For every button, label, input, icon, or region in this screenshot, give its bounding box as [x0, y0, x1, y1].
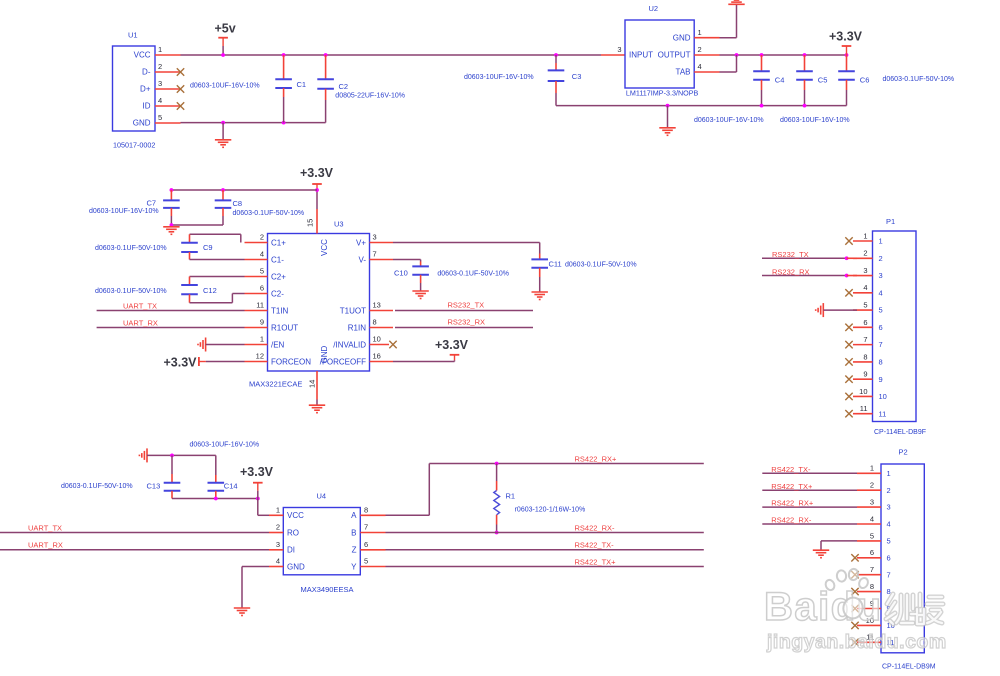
- P1 pin 8 stub: [853, 361, 873, 363]
- U3 pin number 12: [256, 352, 264, 361]
- svg-text:P2: P2: [899, 448, 908, 457]
- net label RS422_RX- (P2): [771, 516, 812, 525]
- svg-text:4: 4: [698, 62, 702, 71]
- U3 part number MAX3221ECAE: [249, 380, 302, 389]
- svg-text:A: A: [351, 511, 357, 520]
- P1 part number CP-114EL-DB9F: [874, 429, 926, 436]
- svg-text:3: 3: [879, 271, 883, 280]
- net label RS422_TX- (P2): [771, 465, 811, 474]
- junction C14 bottom: [214, 497, 218, 501]
- P1 pin 6 stub: [853, 326, 873, 328]
- U4 pin 7 stub: [360, 532, 385, 534]
- U2 pin number 3: [617, 45, 621, 54]
- C3 bottom lead wire: [555, 93, 557, 106]
- refdes C6: [860, 76, 870, 85]
- C10 bottom lead wire: [420, 283, 422, 291]
- svg-text:1: 1: [870, 464, 874, 473]
- capacitor C3: [548, 70, 565, 81]
- wire power stem: [454, 360, 456, 361]
- P1 pin 7 stub: [853, 344, 873, 346]
- svg-text:GND: GND: [133, 119, 151, 128]
- svg-text:TAB: TAB: [676, 68, 691, 77]
- wire C13/C14 bottom rail: [172, 498, 258, 500]
- wire ground drop: [820, 541, 822, 550]
- svg-text:d0603-10UF-16V-10%: d0603-10UF-16V-10%: [190, 83, 260, 90]
- watermark paw print: [824, 568, 869, 620]
- P2 pin 9 stub: [857, 608, 881, 610]
- svg-text:C6: C6: [860, 76, 870, 85]
- C9 bottom lead: [189, 252, 191, 260]
- refdes C13: [147, 482, 161, 491]
- U2 part number LM1117IMP-3.3/NOPB: [626, 88, 699, 97]
- P2 pin name 3: [887, 503, 891, 512]
- U1 pin 2 stub: [155, 71, 181, 73]
- C13 top wire: [171, 455, 173, 474]
- P2 pin number 7: [870, 565, 874, 574]
- U3 pin name C2-: [271, 289, 284, 298]
- svg-text:RS422_RX+: RS422_RX+: [575, 454, 618, 463]
- wire GND pin: [242, 566, 269, 568]
- svg-text:INPUT: INPUT: [629, 51, 653, 60]
- power label +3.3V (FORCEOFF): [435, 338, 469, 352]
- svg-text:6: 6: [364, 540, 368, 549]
- P1 pin number 10: [859, 387, 867, 396]
- net label RS422_TX- (U4): [575, 541, 615, 550]
- svg-text:C1-: C1-: [271, 255, 284, 264]
- U1 pin 3 stub: [155, 88, 181, 90]
- refdes C9: [203, 243, 213, 252]
- no-connect X on P1 pin 8: [845, 358, 852, 365]
- capacitor C11: [531, 259, 548, 267]
- P2 pin name 6: [887, 553, 891, 562]
- svg-text:12: 12: [256, 352, 264, 361]
- P1 pin name 11: [879, 409, 887, 418]
- svg-text:FORCEON: FORCEON: [271, 357, 311, 366]
- wire 3.3V down to U3 VCC: [316, 191, 318, 209]
- svg-text:2: 2: [870, 481, 874, 490]
- net label RS422_RX-: [575, 523, 616, 532]
- svg-text:6: 6: [260, 284, 264, 293]
- svg-text:P1: P1: [886, 217, 895, 226]
- svg-text:U3: U3: [334, 220, 344, 229]
- svg-text:GND: GND: [673, 33, 691, 42]
- P1 pin 1 stub: [853, 240, 873, 242]
- svg-text:DI: DI: [287, 546, 295, 555]
- svg-text:d0603-0.1UF-50V-10%: d0603-0.1UF-50V-10%: [233, 210, 305, 217]
- P2 pin name 2: [887, 486, 891, 495]
- capacitor C2: [317, 79, 334, 89]
- svg-text:C5: C5: [818, 76, 828, 85]
- wire 3.3V output rail: [720, 54, 847, 56]
- C8 top lead: [222, 190, 224, 200]
- svg-text:C8: C8: [233, 199, 243, 208]
- C5 footprint label: [780, 117, 850, 124]
- power bar +3.3V (FORCEOFF): [450, 355, 460, 361]
- wire up to ground: [736, 4, 738, 37]
- svg-text:1: 1: [863, 231, 867, 240]
- wire UART_TX to T1IN: [97, 310, 245, 312]
- svg-text:C2-: C2-: [271, 289, 284, 298]
- junction P1 pin3: [845, 274, 849, 278]
- C1 top lead: [283, 55, 285, 79]
- refdes C10: [394, 268, 408, 277]
- junction TAB tie: [735, 53, 739, 57]
- wire C9 bottom to C1-: [190, 259, 245, 261]
- no-connect X on P1 pin 10: [845, 393, 852, 400]
- no-connect X on P2 pin 9: [851, 605, 858, 612]
- svg-text:C7: C7: [147, 198, 157, 207]
- no-connect X on P1 pin 7: [845, 341, 852, 348]
- svg-text:V+: V+: [356, 238, 366, 247]
- svg-text:10: 10: [859, 387, 867, 396]
- U3 pin number 7: [373, 250, 377, 259]
- svg-text:/INVALID: /INVALID: [333, 340, 366, 349]
- net label UART_RX (U4): [28, 541, 63, 550]
- wire to U4 VCC: [258, 514, 269, 516]
- U3 pin 1 stub: [245, 344, 268, 346]
- U4 pin name Y: [351, 562, 357, 571]
- svg-text:1: 1: [887, 469, 891, 478]
- U3 pin number 8: [373, 318, 377, 327]
- no-connect X on P1 pin 11: [845, 410, 852, 417]
- svg-text:7: 7: [863, 335, 867, 344]
- svg-text:11: 11: [860, 404, 868, 413]
- svg-text:RS232_RX: RS232_RX: [772, 267, 810, 276]
- svg-text:6: 6: [863, 318, 867, 327]
- P2 pin name 4: [887, 520, 891, 529]
- ground symbol below U1 rail: [215, 140, 231, 148]
- wire ground to /EN: [206, 344, 245, 346]
- junction C1 bottom: [282, 121, 286, 125]
- junction C1 top: [282, 53, 286, 57]
- svg-text:6: 6: [887, 553, 891, 562]
- wire C14 drop: [215, 455, 217, 475]
- C2 footprint label: [335, 92, 405, 99]
- U3 pin number 9: [260, 318, 264, 327]
- U1 pin number 4: [158, 96, 162, 105]
- C8 bottom lead (red): [222, 208, 224, 216]
- wire C12 top to C2+: [190, 276, 245, 278]
- net label RS422_RX+ (P2): [771, 499, 814, 508]
- P1 pin 4 stub: [853, 292, 873, 294]
- svg-text:4: 4: [863, 283, 867, 292]
- U1 pin number 2: [158, 62, 162, 71]
- svg-text:U1: U1: [128, 31, 138, 40]
- svg-text:C10: C10: [394, 268, 408, 277]
- wire RS422_RX+ (P2): [762, 506, 857, 508]
- svg-text:RS422_TX-: RS422_TX-: [575, 541, 615, 550]
- no-connect X on P1 pin 9: [845, 375, 852, 382]
- wire RS422_TX+: [386, 566, 704, 568]
- svg-text:T1UOT: T1UOT: [340, 306, 366, 315]
- svg-text:MAX3490EESA: MAX3490EESA: [301, 585, 354, 594]
- capacitor C5: [796, 71, 813, 80]
- svg-text:14: 14: [308, 380, 317, 388]
- refdes C1: [297, 80, 307, 89]
- P2 pin number 11: [866, 633, 874, 642]
- svg-text:U4: U4: [317, 492, 327, 501]
- svg-text:r0603-120-1/16W-10%: r0603-120-1/16W-10%: [515, 507, 586, 514]
- svg-text:+3.3V: +3.3V: [240, 465, 274, 479]
- refdes C7: [147, 198, 157, 207]
- U4 pin name DI: [287, 546, 295, 555]
- U4 pin 5 stub: [360, 566, 385, 568]
- P2 pin 1 stub: [857, 472, 881, 474]
- U4 pin name A: [351, 511, 357, 520]
- C9 top lead: [189, 234, 191, 242]
- refdes U1: [128, 31, 138, 40]
- R1 top lead (red): [496, 481, 498, 491]
- regulator U2 body: [625, 20, 694, 88]
- U3 pin name VCC (rotated): [320, 239, 329, 256]
- P1 pin name 3: [879, 271, 883, 280]
- wire RS422_TX-: [386, 549, 704, 551]
- wire 5V rail U1.1 to U2 input: [181, 54, 602, 56]
- P2 pin name 5: [887, 537, 891, 546]
- svg-text:4: 4: [887, 520, 891, 529]
- svg-text:d0603-10UF-16V-10%: d0603-10UF-16V-10%: [190, 442, 260, 449]
- net label RS422_TX+ (U4): [575, 557, 617, 566]
- P2 pin number 8: [870, 582, 874, 591]
- svg-text:5: 5: [260, 267, 264, 276]
- refdes C14: [224, 482, 238, 491]
- svg-text:/FORCEOFF: /FORCEOFF: [320, 357, 366, 366]
- rotated ground at /EN: [198, 338, 206, 352]
- svg-text:D+: D+: [140, 85, 151, 94]
- svg-text:3: 3: [617, 45, 621, 54]
- svg-text:C9: C9: [203, 243, 213, 252]
- svg-text:+3.3V: +3.3V: [829, 30, 863, 44]
- P1 pin name 5: [879, 306, 883, 315]
- ground symbol below C10: [412, 291, 428, 299]
- P2 pin 3 stub: [857, 506, 881, 508]
- svg-text:5: 5: [863, 300, 867, 309]
- junction C2 top: [324, 53, 328, 57]
- C10 bottom lead (red): [420, 275, 422, 283]
- svg-text:4: 4: [870, 514, 874, 523]
- P1 pin name 10: [879, 392, 887, 401]
- wire ground stem: [222, 123, 224, 140]
- U1 pin 4 stub: [155, 105, 181, 107]
- watermark jingyan.baidu.com: [766, 631, 947, 653]
- capacitor C12: [181, 285, 198, 294]
- U3 pin name GND (rotated): [320, 346, 329, 364]
- wire RS232_RX (U3): [395, 327, 533, 329]
- U3 pin 10 stub: [370, 344, 390, 346]
- C11 bottom lead wire: [539, 277, 541, 292]
- U1 pin name VCC: [134, 51, 151, 60]
- svg-text:/EN: /EN: [271, 340, 285, 349]
- C14 bottom lead: [215, 491, 217, 499]
- svg-text:VCC: VCC: [287, 511, 304, 520]
- junction 3.3V node: [256, 497, 260, 501]
- refdes R1: [506, 491, 516, 500]
- U3 pin name /EN: [271, 340, 285, 349]
- refdes C3: [572, 72, 582, 81]
- U1 pin number 1: [158, 45, 162, 54]
- wire V+ to C11: [393, 242, 540, 244]
- svg-text:T1IN: T1IN: [271, 306, 289, 315]
- svg-text:105017-0002: 105017-0002: [113, 140, 155, 149]
- U1 pin number 5: [158, 113, 162, 122]
- P1 pin number 7: [863, 335, 867, 344]
- net label RS232_TX (U3): [448, 301, 485, 310]
- svg-text:5: 5: [870, 531, 874, 540]
- rotated ground at P1 pin 5: [816, 303, 824, 317]
- svg-text:5: 5: [879, 306, 883, 315]
- refdes C11: [549, 260, 562, 269]
- C14 footprint label: [190, 442, 260, 449]
- C5 bottom lead wire: [804, 90, 806, 106]
- wire RS232_TX (P1): [762, 257, 847, 259]
- U1 pin name D-: [142, 68, 151, 77]
- U2 pin name OUTPUT: [658, 51, 691, 60]
- U3 pin number 14 (rotated): [308, 380, 317, 388]
- P1 pin 10 stub: [853, 395, 873, 397]
- svg-text:C1+: C1+: [271, 238, 286, 247]
- svg-text:LM1117IMP-3.3/NOPB: LM1117IMP-3.3/NOPB: [626, 88, 699, 97]
- wire UART_TX to RO: [0, 532, 269, 534]
- P1 pin number 4: [863, 283, 867, 292]
- net label RS422_TX+ (P2): [771, 482, 813, 491]
- svg-text:C2: C2: [339, 82, 349, 91]
- U4 pin number 4: [276, 557, 280, 566]
- P2 pin 11 stub: [857, 641, 881, 643]
- svg-text:C13: C13: [147, 482, 161, 491]
- P2 pin number 2: [870, 481, 874, 490]
- P1 pin number 9: [863, 370, 867, 379]
- U3 pin name R1IN: [348, 323, 366, 332]
- wire A pin: [386, 514, 430, 516]
- svg-text:3: 3: [276, 540, 280, 549]
- svg-text:11: 11: [879, 409, 887, 418]
- C1 footprint label: [190, 83, 260, 90]
- svg-text:R1: R1: [506, 491, 516, 500]
- wire U2 TAB pin: [720, 71, 737, 73]
- power bar +3.3V (top right): [842, 46, 852, 55]
- svg-text:RS422_RX+: RS422_RX+: [771, 499, 814, 508]
- P1 pin name 8: [879, 357, 883, 366]
- svg-text:RS232_TX: RS232_TX: [448, 301, 485, 310]
- U3 pin number 6: [260, 284, 264, 293]
- inverted ground above U2: [728, 0, 744, 4]
- IC U3 body: [268, 234, 370, 372]
- svg-text:B: B: [351, 528, 356, 537]
- U3 pin 12 stub: [245, 361, 268, 363]
- svg-text:RS422_TX+: RS422_TX+: [575, 557, 617, 566]
- no-connect X on U1 pin 3: [177, 85, 184, 92]
- watermark Baidu logo text: [764, 585, 883, 629]
- refdes U3: [334, 220, 344, 229]
- refdes C12: [203, 286, 217, 295]
- capacitor C6: [838, 71, 855, 80]
- svg-text:+3.3V: +3.3V: [435, 338, 469, 352]
- P2 pin 2 stub: [857, 489, 881, 491]
- capacitor C8: [215, 200, 232, 208]
- svg-text:R1OUT: R1OUT: [271, 323, 298, 332]
- svg-text:15: 15: [306, 219, 315, 227]
- wire TAB up to output: [736, 55, 738, 72]
- R1 top lead wire: [496, 464, 498, 482]
- P1 pin name 1: [879, 237, 883, 246]
- junction C3 top: [554, 53, 558, 57]
- junction R1 top: [495, 462, 499, 466]
- svg-text:4: 4: [879, 288, 883, 297]
- power label +3.3V (U4): [240, 465, 274, 479]
- P2 pin name 7: [887, 570, 891, 579]
- wire 3.3V to FORCEOFF: [393, 361, 455, 363]
- junction ground node C7/C8: [170, 223, 174, 227]
- U4 pin number 6: [364, 540, 368, 549]
- P2 pin 5 stub: [857, 540, 881, 542]
- U3 pin name C1-: [271, 255, 284, 264]
- svg-text:6: 6: [870, 548, 874, 557]
- P1 pin 2 stub inner: [847, 257, 857, 259]
- capacitor C4: [753, 71, 770, 80]
- refdes P2: [899, 448, 908, 457]
- svg-text:3: 3: [373, 233, 377, 242]
- wire RS422_TX+ (P2): [762, 489, 857, 491]
- svg-text:11: 11: [256, 301, 264, 310]
- C6 bottom lead (red): [846, 80, 848, 90]
- net label RS422_RX+: [575, 454, 618, 463]
- R1 bottom lead (red): [496, 515, 498, 525]
- junction ground tap: [666, 104, 670, 108]
- C6 top lead: [846, 55, 848, 71]
- wire GND drop: [241, 567, 243, 608]
- P1 pin number 11: [860, 404, 868, 413]
- P2 pin number 9: [870, 599, 874, 608]
- U4 pin number 3: [276, 540, 280, 549]
- svg-text:OUTPUT: OUTPUT: [658, 51, 691, 60]
- U1 pin 1 stub: [155, 54, 181, 56]
- wire +5V stem to rail: [222, 46, 224, 55]
- P1 pin 9 stub: [853, 378, 873, 380]
- no-connect X on P2 pin 10: [851, 622, 858, 629]
- U3 pin number 11: [256, 301, 264, 310]
- U2 pin name TAB: [676, 68, 691, 77]
- P2 pin name 9: [887, 604, 891, 613]
- no-connect X on P1 pin 1: [845, 237, 852, 244]
- connector P1 body: [873, 231, 917, 422]
- P2 pin 10 stub: [857, 624, 881, 626]
- net label UART_RX (U3): [123, 319, 158, 328]
- svg-text:6: 6: [879, 323, 883, 332]
- svg-text:8: 8: [373, 318, 377, 327]
- no-connect X on P1 pin 6: [845, 324, 852, 331]
- capacitor C14: [208, 483, 225, 491]
- U3 pin 3 stub: [370, 242, 394, 244]
- U3 pin name T1IN: [271, 306, 289, 315]
- wire ground rail (U2 section): [556, 105, 847, 107]
- svg-text:CP-114EL-DB9F: CP-114EL-DB9F: [874, 429, 926, 436]
- wire RS232_RX (P1): [762, 275, 847, 277]
- junction R1 bottom: [495, 531, 499, 535]
- U2 pin name GND: [673, 33, 691, 42]
- U2 pin 1 stub: [694, 37, 719, 39]
- svg-text:2: 2: [863, 249, 867, 258]
- svg-text:C12: C12: [203, 286, 217, 295]
- svg-text:9: 9: [879, 375, 883, 384]
- svg-text:4: 4: [158, 96, 162, 105]
- refdes P1: [886, 217, 895, 226]
- wire RS422_TX- (P2): [762, 472, 857, 474]
- C4 bottom lead (red): [761, 80, 763, 90]
- svg-text:CP-114EL-DB9M: CP-114EL-DB9M: [882, 664, 936, 671]
- C7 bottom lead wire: [170, 216, 172, 225]
- svg-text:3: 3: [870, 498, 874, 507]
- svg-text:3: 3: [887, 503, 891, 512]
